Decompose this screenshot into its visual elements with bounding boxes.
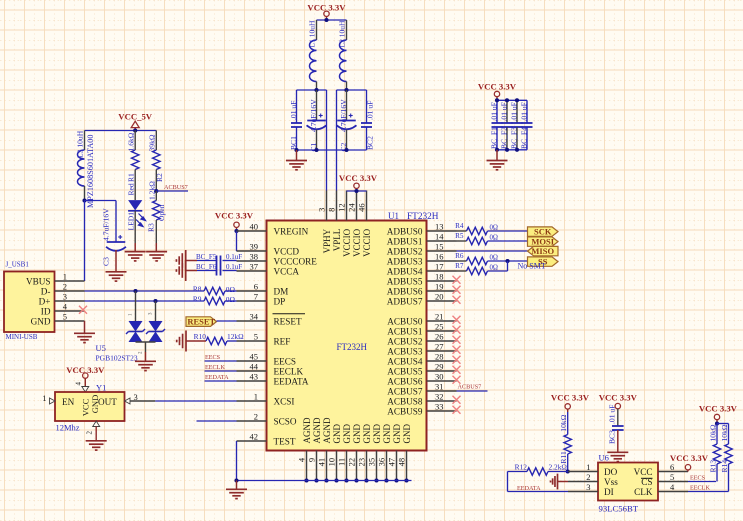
svg-text:4.7uF/16V: 4.7uF/16V — [309, 99, 318, 132]
svg-text:34: 34 — [250, 312, 259, 322]
svg-text:93LC56BT: 93LC56BT — [599, 504, 639, 514]
svg-text:GND: GND — [31, 317, 51, 327]
IC U1 FT232H — [267, 221, 427, 451]
svg-text:9: 9 — [307, 458, 317, 462]
capacitor C1 4.7uF/16V — [316, 90, 318, 121]
svg-text:1: 1 — [254, 392, 258, 402]
no-connect X on ID pin — [79, 306, 87, 314]
resistor R3 1.2k Open — [155, 191, 157, 201]
svg-text:FT232H: FT232H — [407, 212, 439, 222]
svg-text:ADBUS1: ADBUS1 — [387, 237, 423, 247]
no-connect X — [453, 376, 461, 384]
capacitor BC2 .01uF — [366, 90, 368, 123]
svg-text:VCCD: VCCD — [274, 247, 300, 257]
svg-text:GND: GND — [392, 424, 402, 444]
pin 7 (DP) of U1 — [237, 300, 267, 302]
wire (ground bus) — [237, 480, 412, 482]
wire — [236, 231, 238, 251]
svg-text:BC2: BC2 — [366, 136, 375, 150]
wire — [488, 240, 528, 242]
pin 28 (ACBUS4) of U1 — [427, 360, 457, 362]
svg-text:41: 41 — [317, 458, 327, 467]
wire (ground rail) — [297, 149, 367, 151]
svg-text:EECLK: EECLK — [690, 485, 710, 492]
wire + net label ACBUS7 — [156, 190, 188, 192]
pin 30 (ACBUS6) of U1 — [427, 380, 457, 382]
svg-text:18: 18 — [435, 272, 444, 282]
pin 33 (ACBUS9) of U1 — [427, 410, 457, 412]
svg-text:0.1uF: 0.1uF — [226, 263, 242, 271]
svg-text:AGND: AGND — [322, 417, 332, 443]
pin 36 (GND) of U1 bottom — [386, 451, 388, 481]
svg-text:VCC 3.3V: VCC 3.3V — [215, 210, 254, 220]
svg-text:22: 22 — [347, 458, 357, 467]
svg-text:12Mhz: 12Mhz — [56, 423, 80, 433]
svg-text:VCCA: VCCA — [274, 267, 300, 277]
svg-text:GND: GND — [342, 424, 352, 444]
svg-text:13: 13 — [435, 222, 444, 232]
pin 9 (AGND) of U1 bottom — [316, 451, 318, 481]
svg-text:15: 15 — [435, 242, 444, 252]
svg-text:ACBUS0: ACBUS0 — [387, 317, 423, 327]
pin 44 (EECLK) of U1 — [237, 370, 267, 372]
svg-text:10kΩ: 10kΩ — [720, 424, 729, 441]
no-connect X — [453, 366, 461, 374]
svg-text:.01 uF: .01 uF — [510, 102, 519, 121]
ground (BC_F6) — [185, 260, 187, 281]
capacitor BC_F6 0.1uF — [197, 270, 217, 272]
svg-text:DM: DM — [274, 287, 289, 297]
junction — [515, 98, 519, 102]
svg-text:VPLL: VPLL — [332, 229, 342, 252]
svg-text:RESET: RESET — [274, 317, 302, 327]
pin 32 (ACBUS8) of U1 — [427, 400, 457, 402]
capacitor BC_F2 .01uF — [506, 100, 508, 123]
wire (EEDATA loop) — [507, 472, 509, 492]
junction — [133, 128, 137, 132]
svg-text:Open: Open — [157, 204, 166, 221]
pin 1 EN of Y1 — [50, 398, 56, 404]
pin 17 (ADBUS4) of U1 — [427, 270, 457, 272]
connector J_USB1 MINI-USB — [4, 272, 55, 333]
junction (VBUS node) — [82, 198, 86, 202]
svg-text:3: 3 — [317, 208, 327, 212]
wire XCSI net — [155, 400, 236, 402]
svg-text:30: 30 — [435, 372, 444, 382]
resistor R8 0ohm — [204, 287, 225, 294]
TVS diode U5-A — [129, 321, 143, 332]
pin 14 (ADBUS1) of U1 — [427, 240, 457, 242]
IC U6 93LC56BT — [598, 463, 658, 501]
svg-text:20: 20 — [435, 292, 444, 302]
svg-text:SCK: SCK — [534, 227, 552, 237]
svg-text:BC_F2: BC_F2 — [500, 127, 509, 149]
svg-text:6: 6 — [254, 282, 258, 292]
svg-text:GND: GND — [402, 424, 412, 444]
svg-text:12: 12 — [337, 203, 347, 212]
svg-text:26: 26 — [435, 332, 444, 342]
junction — [384, 478, 388, 482]
svg-text:FT232H: FT232H — [337, 342, 368, 352]
svg-text:XCSI: XCSI — [274, 397, 295, 407]
svg-text:Red: Red — [127, 183, 136, 195]
svg-text:ACBUS2: ACBUS2 — [387, 337, 423, 347]
pin 20 (ADBUS7) of U1 — [427, 300, 457, 302]
svg-text:Y1: Y1 — [96, 383, 106, 393]
svg-text:CLK: CLK — [634, 487, 653, 497]
pin 2 (SCSO) of U1 — [237, 420, 267, 422]
junction — [314, 148, 318, 152]
pin 27 (ACBUS3) of U1 — [427, 350, 457, 352]
svg-text:U1: U1 — [388, 211, 399, 221]
pin 3 (VPHY) of U1 top — [326, 191, 328, 221]
no-connect X — [453, 356, 461, 364]
junction — [314, 88, 318, 92]
pin 2 (D-) of J_USB1 — [55, 290, 85, 292]
svg-text:Vss: Vss — [604, 477, 618, 487]
pin 18 (ADBUS5) of U1 — [427, 280, 457, 282]
wire + net label EECLK — [688, 491, 729, 493]
svg-text:EECS: EECS — [205, 354, 221, 361]
svg-text:R3: R3 — [147, 223, 156, 232]
svg-text:ADBUS5: ADBUS5 — [387, 277, 423, 287]
port SS — [528, 257, 559, 266]
port SCK — [528, 227, 559, 236]
ground (R10) — [185, 331, 187, 352]
junction — [505, 259, 509, 263]
wire — [217, 320, 237, 322]
capacitor C3 4.7uF/16V — [107, 241, 126, 243]
svg-text:VCC: VCC — [80, 398, 90, 416]
pin 4 (ID) of J_USB1 — [55, 310, 85, 312]
pin 16 (ADBUS3) of U1 — [427, 260, 457, 262]
svg-text:TEST: TEST — [274, 437, 296, 447]
svg-text:OUT: OUT — [98, 397, 117, 407]
junction — [495, 148, 499, 152]
svg-text:.01 uF: .01 uF — [490, 102, 499, 121]
svg-text:BC_F5: BC_F5 — [196, 253, 217, 261]
svg-text:VCCCORE: VCCCORE — [274, 257, 318, 267]
pin 41 (AGND) of U1 bottom — [326, 451, 328, 481]
port RESET — [186, 317, 217, 327]
ground (Y1) — [86, 440, 107, 442]
svg-text:38: 38 — [250, 252, 259, 262]
svg-text:1: 1 — [42, 393, 46, 403]
pin 34 (RESET) of U1 — [237, 320, 267, 322]
pin 1 (XCSI) of U1 — [237, 400, 267, 402]
svg-text:R1: R1 — [127, 173, 136, 182]
pin 19 (ADBUS6) of U1 — [427, 290, 457, 292]
svg-text:BC1: BC1 — [289, 136, 298, 150]
oscillator Y1 12Mhz — [55, 392, 125, 421]
svg-text:ADBUS3: ADBUS3 — [387, 257, 423, 267]
port MISO — [528, 246, 559, 255]
svg-text:EECS: EECS — [274, 357, 296, 367]
svg-text:L1 10uH: L1 10uH — [308, 20, 317, 47]
svg-text:R8: R8 — [193, 285, 202, 294]
resistor R11 10k — [567, 412, 569, 435]
wire to VPHY pin — [326, 90, 328, 191]
svg-text:EECLK: EECLK — [274, 367, 304, 377]
svg-text:39kΩ: 39kΩ — [148, 134, 157, 151]
inductor L1 10uH — [316, 20, 318, 40]
svg-text:R9: R9 — [193, 295, 202, 304]
svg-text:ACBUS5: ACBUS5 — [387, 367, 423, 377]
junction — [394, 478, 398, 482]
svg-text:ID: ID — [41, 307, 51, 317]
wire D- net — [85, 290, 205, 292]
wire + net label EECS — [688, 481, 716, 483]
svg-text:GND: GND — [362, 424, 372, 444]
junction — [324, 18, 328, 22]
pin 35 (GND) of U1 bottom — [376, 451, 378, 481]
svg-text:GND: GND — [382, 424, 392, 444]
pin 48 (GND) of U1 bottom — [406, 451, 408, 481]
pin 1 (VBUS) of J_USB1 — [55, 280, 85, 282]
resistor R4 0ohm — [457, 230, 467, 232]
svg-text:6: 6 — [670, 462, 674, 472]
pin 29 (ACBUS5) of U1 — [427, 370, 457, 372]
svg-text:GND: GND — [352, 424, 362, 444]
junction — [304, 478, 308, 482]
svg-text:19: 19 — [435, 282, 444, 292]
pin 39 (VCCD) of U1 — [237, 250, 267, 252]
svg-text:2: 2 — [86, 431, 94, 435]
wire + net label EEDATA — [205, 380, 237, 382]
wire — [115, 201, 117, 243]
svg-text:ACBUS7: ACBUS7 — [387, 387, 423, 397]
junction — [314, 478, 318, 482]
svg-text:ADBUS7: ADBUS7 — [387, 297, 423, 307]
svg-text:D+: D+ — [39, 297, 51, 307]
no-connect X — [453, 326, 461, 334]
svg-text:5: 5 — [254, 332, 258, 342]
no-connect X — [453, 276, 461, 284]
svg-text:R7: R7 — [455, 262, 464, 270]
wire (bank bottom rail) — [497, 149, 527, 151]
ground (USB GND) — [84, 321, 86, 333]
resistor R12 2.2k — [508, 471, 528, 473]
resistor R2 39k — [155, 131, 157, 151]
pin 5 (GND) of J_USB1 — [55, 320, 85, 322]
svg-text:28: 28 — [435, 352, 444, 362]
svg-text:VCC 3.3V: VCC 3.3V — [339, 173, 378, 183]
svg-text:39: 39 — [250, 242, 259, 252]
no-connect X — [453, 286, 461, 294]
pin 23 (GND) of U1 bottom — [366, 451, 368, 481]
TVS diode U5 pin1 lead — [135, 291, 137, 321]
pin 3 OUT of Y1 — [125, 398, 131, 404]
wire (right filter top rail) — [337, 89, 367, 91]
junction — [294, 148, 298, 152]
junction — [344, 88, 348, 92]
junction — [505, 148, 509, 152]
pin 22 (GND) of U1 bottom — [356, 451, 358, 481]
svg-text:L3 10uH: L3 10uH — [75, 130, 84, 158]
capacitor C2 4.7uF/16V — [346, 90, 348, 121]
wire (SCSO stub) — [197, 420, 237, 422]
resistor R10 12k — [206, 337, 227, 344]
svg-text:No SMT: No SMT — [518, 262, 546, 271]
wire to VPLL pin — [336, 90, 338, 191]
svg-text:BC_F3: BC_F3 — [510, 127, 519, 149]
no-connect X — [453, 296, 461, 304]
junction — [234, 478, 238, 482]
svg-text:GND: GND — [90, 395, 100, 414]
svg-text:35: 35 — [367, 458, 377, 467]
capacitor BC_F1 .01uF — [496, 100, 498, 123]
wire — [317, 19, 347, 21]
junction — [404, 478, 408, 482]
TVS diode U5 pin3 lead — [155, 301, 157, 321]
inductor L3 10uH MPZ1608S601ATA00 — [84, 131, 86, 151]
resistor R6 0ohm — [457, 260, 467, 262]
wire (TEST to gnd bus) — [236, 441, 238, 481]
wire — [488, 270, 508, 272]
resistor R1 1.6k — [134, 131, 136, 151]
junction — [505, 98, 509, 102]
wire — [136, 341, 156, 343]
svg-text:REF: REF — [274, 337, 291, 347]
no-connect X — [453, 336, 461, 344]
svg-text:.01 uF: .01 uF — [289, 101, 298, 120]
svg-text:MOSI: MOSI — [531, 237, 554, 247]
pin 13 (ADBUS0) of U1 — [427, 230, 457, 232]
svg-text:ACBUS7: ACBUS7 — [458, 384, 482, 391]
no-connect X — [453, 346, 461, 354]
svg-text:2: 2 — [254, 412, 258, 422]
svg-text:0Ω: 0Ω — [226, 285, 236, 294]
svg-text:ADBUS6: ADBUS6 — [387, 287, 423, 297]
svg-text:2: 2 — [63, 282, 67, 292]
svg-text:25: 25 — [435, 322, 444, 332]
TVS diode U5-B — [149, 321, 163, 332]
svg-text:40: 40 — [250, 222, 259, 232]
svg-text:43: 43 — [250, 372, 259, 382]
svg-text:C3: C3 — [102, 257, 111, 266]
svg-text:ACBUS1: ACBUS1 — [387, 327, 423, 337]
svg-text:10: 10 — [327, 458, 337, 467]
pin 10 (GND) of U1 bottom — [336, 451, 338, 481]
svg-text:L2 10uH: L2 10uH — [338, 20, 347, 47]
svg-text:3: 3 — [586, 482, 590, 492]
svg-text:MISO: MISO — [531, 246, 554, 256]
svg-text:VREGIN: VREGIN — [274, 227, 309, 237]
capacitor BC1 .01uF — [296, 90, 298, 123]
svg-text:2.2kΩ: 2.2kΩ — [549, 463, 568, 472]
port MOSI — [528, 237, 559, 246]
svg-text:16: 16 — [435, 252, 444, 262]
resistor R9 0ohm — [204, 297, 225, 304]
svg-text:PGB102ST23: PGB102ST23 — [96, 354, 138, 363]
svg-text:SCSO: SCSO — [274, 417, 297, 427]
pin 3 (D+) of J_USB1 — [55, 300, 85, 302]
svg-text:EECS: EECS — [690, 475, 706, 482]
pin 43 (EEDATA) of U1 — [237, 380, 267, 382]
pin 45 (EECS) of U1 — [237, 360, 267, 362]
junction — [344, 478, 348, 482]
svg-text:21: 21 — [435, 312, 444, 322]
svg-text:12kΩ: 12kΩ — [227, 332, 244, 341]
svg-text:D-: D- — [41, 287, 51, 297]
wire + net label ACBUS7 (pin31) — [457, 390, 488, 392]
wire — [85, 200, 117, 202]
pin 47 (GND) of U1 bottom — [396, 451, 398, 481]
svg-text:5: 5 — [670, 472, 674, 482]
pin 11 (GND) of U1 bottom — [346, 451, 348, 481]
wire — [145, 342, 147, 352]
junction — [495, 98, 499, 102]
svg-text:BC_F4: BC_F4 — [520, 127, 529, 149]
svg-text:U5: U5 — [96, 343, 106, 353]
ground (U6 Vss) — [557, 474, 559, 490]
junction — [133, 289, 137, 293]
wire (VBUS riser) — [84, 201, 86, 282]
svg-text:1: 1 — [586, 462, 590, 472]
junction — [515, 148, 519, 152]
svg-text:27: 27 — [435, 342, 444, 352]
svg-text:VCC 3.3V: VCC 3.3V — [599, 393, 638, 403]
svg-text:EN: EN — [62, 397, 75, 407]
svg-text:VCC 3.3V: VCC 3.3V — [478, 81, 517, 91]
svg-text:R4: R4 — [455, 222, 464, 230]
svg-text:23: 23 — [357, 458, 367, 467]
svg-text:47: 47 — [387, 458, 397, 467]
svg-text:3: 3 — [134, 392, 138, 402]
pin 37 (VCCA) of U1 — [237, 270, 267, 272]
svg-text:R12: R12 — [515, 463, 528, 472]
svg-text:EEDATA: EEDATA — [205, 374, 229, 381]
capacitor BC_F4 .01uF — [526, 100, 528, 123]
svg-text:1.6kΩ: 1.6kΩ — [127, 132, 136, 151]
pin 46 (VCCIO) of U1 top — [366, 191, 368, 221]
svg-text:VCC 3.3V: VCC 3.3V — [699, 403, 738, 413]
wire — [507, 261, 509, 271]
svg-text:46: 46 — [357, 203, 367, 212]
svg-text:DP: DP — [274, 297, 286, 307]
wire (ADBUS2 to MISO) — [457, 250, 528, 252]
ground (U5) — [135, 360, 156, 362]
pin 2 GND of Y1 — [93, 421, 100, 427]
svg-text:GND: GND — [332, 424, 342, 444]
svg-text:R5: R5 — [455, 232, 464, 240]
svg-text:AGND: AGND — [312, 417, 322, 443]
junction — [354, 478, 358, 482]
junction — [364, 478, 368, 482]
svg-text:R2: R2 — [155, 173, 164, 182]
wire — [717, 423, 729, 425]
svg-text:ACBUS9: ACBUS9 — [387, 407, 423, 417]
svg-text:LED1: LED1 — [127, 212, 136, 231]
wire + net label EECS — [205, 360, 237, 362]
svg-text:32: 32 — [435, 392, 444, 402]
wire — [347, 190, 367, 192]
pin 26 (ACBUS2) of U1 — [427, 340, 457, 342]
svg-text:VCC: VCC — [634, 467, 653, 477]
ground (BC3) — [607, 451, 628, 453]
svg-text:ACBUS6: ACBUS6 — [387, 377, 423, 387]
svg-text:0Ω: 0Ω — [226, 295, 236, 304]
svg-text:EEDATA: EEDATA — [274, 377, 309, 387]
pin 3 (DI) of U6 — [568, 491, 598, 493]
ground (BC_F5) — [185, 250, 187, 271]
svg-text:MINI-USB: MINI-USB — [6, 333, 38, 341]
svg-text:8: 8 — [327, 208, 337, 212]
svg-text:4: 4 — [75, 382, 83, 386]
capacitor BC_F5 0.1uF — [197, 260, 217, 262]
svg-text:VCC_5V: VCC_5V — [118, 111, 153, 121]
svg-text:VCC 3.3V: VCC 3.3V — [551, 392, 590, 402]
